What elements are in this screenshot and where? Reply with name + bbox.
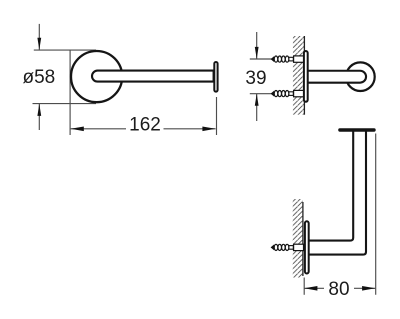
- svg-text:ø58: ø58: [23, 67, 56, 88]
- holder bar side: [308, 71, 367, 83]
- wall surface line vertical view: [302, 202, 304, 276]
- dimension 39 extension line top: [250, 58, 272, 60]
- holder arm inner contour: [309, 132, 354, 241]
- dimension 162 extension line left: [69, 50, 71, 135]
- dimension 162 extension line right: [216, 97, 218, 135]
- dimension o58 extension line bottom: [33, 103, 97, 105]
- wall plate vertical view: [305, 221, 309, 273]
- dimension o58 line lower segment: [38, 104, 40, 130]
- dimension 39 arrow down: [255, 47, 259, 59]
- top disc edge-on: [338, 128, 376, 132]
- dimension 162 line right segment: [164, 128, 216, 130]
- dimension 39 line upper segment: [256, 32, 258, 59]
- bar end disc side view: [346, 62, 375, 91]
- dimension o58 extension line top: [34, 49, 96, 51]
- dimension 80 line right segment: [354, 287, 375, 289]
- dimension 80 extension line right: [375, 134, 377, 295]
- dimension 162 arrow right: [202, 127, 215, 132]
- dimension 80 arrow left: [304, 286, 317, 291]
- wall surface line side view: [303, 36, 305, 115]
- dimension 39 arrow up: [255, 94, 259, 106]
- dimension 39 line lower segment: [256, 94, 258, 121]
- wall plate side view: [304, 51, 308, 102]
- screw S3: [271, 244, 304, 250]
- dimension o58 line upper segment: [38, 24, 40, 50]
- svg-text:39: 39: [245, 68, 266, 89]
- svg-text:80: 80: [328, 279, 349, 300]
- dimension 162 line left segment: [71, 128, 126, 130]
- screw S2: [271, 90, 304, 96]
- dimension 80 arrow right: [362, 286, 375, 291]
- wall hatch vertical view: [293, 199, 303, 278]
- dimension 39 extension line bottom: [250, 93, 272, 95]
- wall rosette circle: [71, 51, 122, 102]
- dimension 80 extension line left: [303, 278, 305, 295]
- dimension o58 arrow up: [37, 104, 41, 116]
- dimension 80 line left segment: [304, 287, 324, 289]
- svg-text:162: 162: [129, 115, 161, 136]
- holder arm outer contour: [309, 132, 366, 255]
- wall hatch side view: [293, 36, 305, 115]
- holder bar front: [92, 71, 214, 82]
- dimension 162 arrow left: [71, 127, 84, 132]
- bar end cap front: [214, 62, 217, 92]
- dimension o58 arrow down: [37, 38, 41, 50]
- screw S1: [271, 56, 304, 62]
